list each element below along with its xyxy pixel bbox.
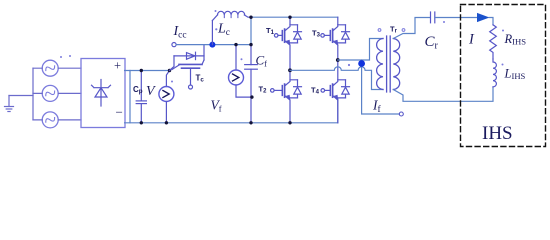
- wire chopper output y45.5 with input terminal: [172, 43, 251, 47]
- polarity dot: [215, 28, 217, 30]
- AC source G1: [42, 60, 58, 76]
- node dots Cf: [249, 16, 252, 125]
- svg-text:If: If: [372, 98, 382, 115]
- svg-text:T4: T4: [311, 85, 320, 95]
- svg-text:+: +: [114, 59, 121, 73]
- svg-text:Vf: Vf: [211, 98, 222, 114]
- IGBT T3: [321, 17, 350, 61]
- capacitor Cf: [245, 45, 258, 123]
- transducer circle near Cf: [229, 45, 252, 98]
- wire bottom dc rail: [130, 122, 338, 124]
- node dots: [165, 69, 172, 125]
- svg-text:IHS: IHS: [482, 123, 513, 144]
- polarity dot near LIHS: [502, 64, 504, 66]
- wire ground to bus: [9, 95, 33, 97]
- transistor Tc with diode: [170, 45, 205, 89]
- wire three-phase bus: [32, 68, 34, 120]
- node Icc big dot: [209, 42, 215, 48]
- wire Cf branch vertical: [250, 17, 252, 44]
- node dots: [234, 43, 253, 99]
- svg-text:RIHS: RIHS: [504, 32, 527, 47]
- wire top dc rail: [130, 70, 170, 72]
- wire left-leg mid to transformer primary bottom (with two hops): [290, 67, 383, 90]
- svg-text:LIHS: LIHS: [504, 66, 526, 81]
- IGBT T2: [271, 70, 302, 123]
- wire G2 leads: [33, 92, 81, 94]
- svg-text:Lc: Lc: [217, 22, 230, 39]
- node If big dot: [358, 60, 365, 67]
- wire Cr to load: [435, 17, 477, 19]
- node dots Cp: [140, 69, 143, 125]
- polarity dot: [171, 81, 173, 83]
- IGBT T4: [321, 60, 350, 123]
- wire secondary top to Cr: [393, 18, 429, 39]
- wire bottom rail corner up to T4: [337, 99, 339, 123]
- capacitor Cp: [136, 71, 146, 123]
- polarity dot near hop: [348, 64, 350, 66]
- svg-text:Tc: Tc: [196, 74, 205, 84]
- svg-text:I: I: [468, 31, 475, 47]
- polarity dot marks near G1: [60, 55, 71, 58]
- wire If branch down to terminal: [362, 60, 400, 114]
- polarity dots Tr: [378, 29, 405, 32]
- transformer core: [387, 36, 391, 92]
- svg-text:V: V: [146, 84, 156, 99]
- AC source G2: [42, 85, 58, 101]
- polarity dot above Lc coil: [215, 10, 217, 12]
- svg-text:Tr: Tr: [390, 25, 398, 35]
- node dots bridge: [288, 16, 340, 125]
- svg-text:Cf: Cf: [256, 53, 268, 69]
- diode inside rectifier: [92, 80, 111, 107]
- wire rectifier output stubs: [125, 71, 130, 123]
- svg-text:Cr: Cr: [425, 34, 439, 52]
- wire right-leg mid to transformer primary top: [338, 39, 383, 61]
- IGBT T1: [274, 17, 301, 70]
- svg-text:T3: T3: [312, 29, 321, 39]
- svg-text:T2: T2: [259, 85, 268, 95]
- rectifier bridge: [81, 59, 125, 128]
- svg-text:−: −: [116, 105, 123, 120]
- polarity dot near RIHS: [502, 30, 504, 32]
- capacitor Cr: [431, 12, 435, 23]
- inductor Lc: [212, 11, 251, 44]
- wire G1 leads: [33, 67, 81, 69]
- resistor RIHS: [490, 25, 497, 59]
- wire arrow to resistor: [489, 18, 493, 25]
- transformer Tr secondary winding: [393, 39, 399, 90]
- current arrow I: [477, 13, 490, 22]
- svg-text:T1: T1: [266, 26, 275, 36]
- IHS dashed box: [461, 5, 546, 147]
- transducer circle Vdc: [159, 71, 174, 123]
- polarity dot near Cr: [443, 21, 445, 23]
- inductor LIHS: [493, 59, 496, 87]
- terminal circle If: [399, 112, 403, 116]
- wire inverter top rail: [251, 16, 338, 18]
- ground: [5, 96, 14, 112]
- polarity dot: [241, 58, 243, 60]
- wire G3 leads: [33, 119, 81, 121]
- transformer Tr primary winding: [377, 39, 383, 90]
- svg-text:Icc: Icc: [173, 24, 187, 41]
- wire secondary bottom return: [393, 87, 493, 101]
- AC source G3: [42, 112, 58, 128]
